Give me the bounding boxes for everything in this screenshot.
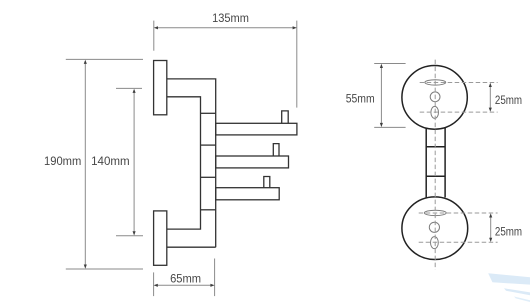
- post joint line 4: [201, 209, 216, 211]
- hook arm 1: [216, 123, 297, 135]
- post joint line 2: [201, 144, 216, 146]
- dimension 135mm extension right: [296, 21, 298, 108]
- dimension 55mm extension bottom: [374, 126, 405, 128]
- watermark swoosh middle streak: [504, 288, 530, 295]
- arrow 65mm right: [210, 284, 214, 287]
- dimension 65mm extension left: [153, 272, 155, 296]
- bar joint line 1: [426, 146, 445, 148]
- dimension 135mm extension left: [153, 21, 155, 51]
- dimension 55mm extension top: [374, 63, 405, 65]
- watermark swoosh top streak: [488, 273, 530, 284]
- dimension 140mm extension top: [116, 87, 142, 89]
- top rosette circle: [402, 66, 467, 130]
- connecting bar left edge: [425, 128, 427, 198]
- svg-text:25mm: 25mm: [495, 225, 522, 239]
- dimension 190mm line: [84, 61, 86, 267]
- post joint line 3: [201, 176, 216, 178]
- top keyhole ellipse: [431, 106, 439, 118]
- svg-text:65mm: 65mm: [170, 272, 201, 286]
- arrow 25mm top lower: [489, 108, 492, 112]
- label 135mm: [212, 11, 249, 25]
- bottom screw hole circle: [429, 222, 439, 232]
- svg-text:140mm: 140mm: [91, 154, 130, 168]
- top support arm top edge and post right edge: [167, 79, 216, 247]
- post joint line 1: [201, 112, 216, 114]
- top circle lower dashed centerline: [420, 111, 498, 113]
- bottom screw slot ellipse: [424, 210, 446, 215]
- bottom circle lower dashed centerline: [419, 241, 498, 243]
- top wall plate: [154, 61, 167, 115]
- hook arm 3: [216, 188, 280, 200]
- dimension 140mm extension bottom: [116, 235, 143, 237]
- top screw slot ellipse: [425, 80, 446, 85]
- arrow 140mm top: [133, 89, 136, 93]
- arrow 135mm left: [154, 26, 158, 29]
- bottom circle upper dashed centerline: [419, 212, 498, 214]
- dimension 25mm top line: [489, 84, 491, 110]
- dimension 25mm bottom line: [490, 215, 492, 241]
- hook peg 2: [273, 144, 279, 156]
- hook peg 1: [282, 111, 289, 123]
- dimension 135mm line: [156, 27, 296, 29]
- top support arm bottom edge and post left edge: [167, 97, 201, 229]
- dimension 55mm line: [380, 65, 382, 125]
- dimension 190mm extension bottom: [66, 268, 143, 270]
- bottom rosette circle: [402, 197, 468, 260]
- bottom keyhole ellipse: [431, 237, 439, 249]
- dimension 65mm line: [155, 284, 213, 286]
- label 55mm: [346, 91, 375, 105]
- label 65mm: [170, 272, 201, 286]
- dimension 190mm extension top: [66, 58, 143, 60]
- label 140mm: [91, 154, 130, 168]
- vertical centerline through both rosettes: [434, 60, 436, 270]
- connecting bar right edge: [444, 127, 446, 197]
- top circle upper dashed centerline: [420, 82, 498, 84]
- svg-text:190mm: 190mm: [44, 154, 81, 168]
- svg-text:55mm: 55mm: [346, 91, 375, 105]
- dimension 65mm extension right: [214, 259, 216, 297]
- arrow 190mm top: [84, 60, 87, 64]
- arrow 65mm left: [154, 284, 158, 287]
- top screw hole circle: [430, 92, 440, 102]
- arrow 140mm bottom: [133, 231, 136, 235]
- arrow 55mm bottom: [380, 123, 383, 127]
- bottom wall plate: [154, 211, 167, 265]
- arrow 25mm bottom lower: [489, 238, 492, 242]
- arrow 25mm top upper: [489, 83, 492, 87]
- bar joint line 2: [426, 175, 445, 177]
- arrow 190mm bottom: [84, 265, 87, 269]
- watermark swoosh bottom streak: [514, 297, 530, 302]
- arrow 55mm top: [380, 64, 383, 68]
- hook arm 2: [216, 156, 289, 168]
- hook peg 3: [264, 177, 270, 188]
- arrow 135mm right: [293, 26, 297, 29]
- svg-text:135mm: 135mm: [212, 11, 249, 25]
- svg-text:25mm: 25mm: [495, 93, 522, 107]
- bottom support arm bottom edge: [167, 246, 216, 248]
- arrow 25mm bottom upper: [489, 213, 492, 217]
- dimension 140mm line: [133, 90, 135, 234]
- label 25mm top: [495, 93, 522, 107]
- label 25mm bottom: [495, 225, 522, 239]
- label 190mm: [44, 154, 81, 168]
